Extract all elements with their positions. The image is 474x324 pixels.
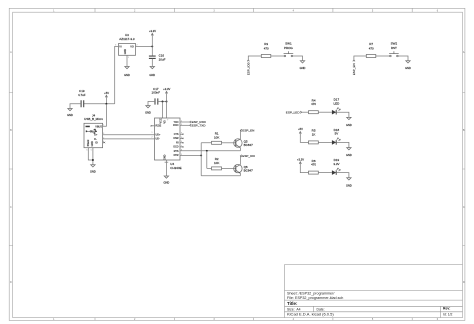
svg-text:VBUS: VBUS (95, 125, 102, 128)
svg-text:470: 470 (311, 102, 316, 106)
global label ESP_LED (286, 110, 302, 114)
wire D18 to ground (336, 142, 349, 147)
resistor R6 (309, 159, 319, 174)
svg-text:GND: GND (149, 73, 155, 77)
power flag +5V (104, 91, 109, 104)
connector J4 USB_B_Micro (84, 113, 104, 151)
wire RTS vertical to R2 (207, 151, 212, 169)
power flag +3.3V (regulator) (149, 29, 156, 47)
global label ESP_EN (switch, vertical) (352, 60, 356, 75)
wire USB D+ to IC (103, 134, 155, 136)
resistor R5 (309, 129, 319, 144)
wire regulator VOUT (136, 45, 153, 47)
svg-text:GND: GND (405, 66, 411, 70)
svg-text:CTS: CTS (174, 133, 179, 136)
global label ESP_EN (240, 128, 254, 132)
svg-text:KiCad E.D.A. kicad (6.0.5): KiCad E.D.A. kicad (6.0.5) (287, 312, 334, 317)
junction DTR (200, 154, 202, 156)
wire Q5 emitter (239, 148, 241, 151)
svg-text:GND: GND (124, 49, 127, 55)
resistor R2 (212, 157, 222, 170)
svg-text:RXD: RXD (173, 123, 179, 127)
wire USB D- to IC (103, 138, 155, 140)
svg-text:5: 5 (160, 120, 161, 122)
svg-text:SW1: SW1 (285, 42, 292, 46)
svg-text:UD+: UD+ (156, 133, 161, 136)
svg-text:10K: 10K (214, 161, 219, 165)
ground (D18) (346, 148, 352, 158)
transistor Q6 (234, 164, 253, 173)
svg-text:4.7uF: 4.7uF (78, 93, 86, 97)
wire C17 left to ground (148, 102, 155, 106)
wire C19 left to ground (70, 104, 81, 109)
svg-text:RTS: RTS (174, 150, 179, 153)
capacitor C17 (152, 87, 161, 105)
svg-text:VI: VI (119, 45, 122, 48)
wire label to R4 (302, 111, 309, 113)
wire V3 drop (166, 102, 168, 119)
wire R2 to Q6 base (222, 167, 236, 169)
svg-text:SW2: SW2 (391, 42, 398, 46)
svg-text:GND: GND (124, 73, 130, 77)
svg-text:10K: 10K (214, 135, 219, 139)
wire R5 to D18 (318, 141, 332, 143)
svg-text:GND: GND (164, 154, 167, 160)
switch SW1 PROG (284, 42, 294, 57)
IC ground wire (165, 160, 167, 176)
svg-text:+3.3V: +3.3V (297, 157, 304, 161)
ground (regulator) (124, 55, 130, 77)
svg-text:R3: R3 (264, 42, 268, 46)
svg-text:ESP_TXD: ESP_TXD (192, 123, 207, 127)
junction usb gnd (92, 159, 94, 161)
svg-text:GND: GND (346, 123, 352, 127)
svg-text:5: 5 (91, 149, 92, 151)
svg-text:BC847: BC847 (244, 143, 254, 147)
wire Q6 collector (239, 156, 241, 165)
wire label to R7 (354, 56, 366, 60)
ground (C19) (67, 109, 73, 117)
ground (D17) (346, 117, 352, 127)
svg-text:D: D (463, 281, 465, 284)
ID pin no-connect (103, 142, 105, 144)
wire TXD (180, 121, 190, 123)
wire USB shield+gnd down (88, 148, 93, 165)
ground (D19) (346, 178, 352, 188)
wire R3 to SW1 (271, 55, 284, 57)
power flag +3.3V (IC) (163, 87, 170, 102)
wire Q5 collector (239, 130, 241, 139)
USB logo inside J4 (86, 129, 97, 133)
IC U4 CH340E (151, 118, 184, 170)
svg-text:R7: R7 (369, 42, 373, 46)
svg-text:470: 470 (311, 163, 316, 167)
svg-text:+3.3V: +3.3V (149, 29, 156, 33)
svg-text:470: 470 (264, 47, 269, 51)
svg-text:GND: GND (91, 141, 94, 147)
global label ESP_TXD (190, 123, 207, 127)
svg-text:AZ1117-3.3: AZ1117-3.3 (119, 37, 135, 41)
svg-text:1: 1 (152, 132, 153, 134)
junction +5V rail (105, 103, 107, 105)
svg-text:+3.3V: +3.3V (163, 87, 170, 91)
svg-text:GND: GND (346, 153, 352, 157)
svg-text:DCD: DCD (173, 146, 178, 149)
svg-text:ESP_IO0: ESP_IO0 (246, 62, 250, 75)
junction vout (151, 45, 153, 47)
svg-text:ESP_EN: ESP_EN (352, 63, 356, 75)
svg-text:1: 1 (128, 57, 129, 59)
wire RXD (180, 124, 190, 126)
svg-text:DTR: DTR (174, 154, 179, 157)
junction RTS-R2 (206, 150, 208, 152)
wire C17 right to 3.3V rail (158, 101, 167, 103)
top/bottom zone ticks (95, 8, 412, 12)
wire R7 to SW2 (376, 55, 390, 57)
svg-text:6: 6 (87, 149, 88, 151)
junction V3 (166, 101, 168, 103)
svg-text:GND: GND (164, 181, 170, 185)
svg-text:File: ESP32_programmer-klad.sc: File: ESP32_programmer-klad.sch (287, 296, 343, 300)
global label ESP_IO0 (transistor) (240, 154, 255, 158)
wire SW1 to ground (293, 56, 303, 61)
svg-text:1K: 1K (312, 132, 316, 136)
resistor R7 (366, 42, 376, 57)
svg-text:2: 2 (152, 137, 153, 139)
power flag +5V (LED row2) (298, 127, 308, 142)
svg-text:100nF: 100nF (152, 91, 161, 95)
svg-text:CH340E: CH340E (170, 166, 181, 170)
svg-text:470: 470 (369, 47, 374, 51)
switch SW2 RST (389, 42, 399, 57)
svg-text:VO: VO (130, 45, 134, 48)
svg-text:DSR: DSR (173, 137, 178, 140)
svg-text:C: C (10, 206, 12, 209)
svg-text:GND: GND (67, 113, 73, 117)
wire VCC drop (162, 102, 164, 119)
wire label to R3 (248, 56, 261, 60)
svg-text:LED: LED (333, 101, 340, 105)
global label ESP_RXD (190, 120, 207, 124)
svg-text:10uF: 10uF (159, 58, 166, 62)
svg-text:GND: GND (346, 183, 352, 187)
svg-text:ID: ID (95, 141, 98, 144)
svg-text:1: 1 (103, 125, 104, 127)
wire DTR (pin6) (180, 154, 201, 156)
wire DTR vertical to R1 and Q6 emitter (201, 143, 240, 176)
wire VBUS drop (103, 104, 107, 127)
LED D17 (332, 98, 340, 115)
wire SW2 to ground (398, 56, 408, 61)
ground (USB) (90, 165, 96, 174)
svg-text:Rev:: Rev: (443, 307, 450, 311)
svg-text:BC847: BC847 (244, 169, 254, 173)
ground (C16) (149, 67, 155, 77)
regulator U3 (115, 33, 137, 59)
svg-text:R232: R232 (156, 125, 162, 128)
svg-text:GND: GND (145, 111, 151, 115)
svg-text:+5V: +5V (104, 91, 109, 95)
wire RTS (pin5) to transistor net B (180, 150, 240, 152)
svg-text:RI: RI (176, 142, 179, 145)
wire R6 to D19 (318, 172, 332, 174)
global label ESP_IO0 (switch, vertical) (246, 60, 250, 75)
svg-text:ESP_EN: ESP_EN (242, 128, 254, 132)
svg-text:3.3V: 3.3V (333, 162, 339, 166)
svg-text:D: D (10, 281, 12, 284)
svg-text:Title:: Title: (287, 301, 298, 306)
svg-text:Id: 1/2: Id: 1/2 (443, 313, 453, 317)
ground (SW1) (300, 61, 306, 70)
svg-text:PROG: PROG (284, 46, 294, 50)
svg-text:USB_B_Micro: USB_B_Micro (84, 117, 103, 121)
svg-text:GND: GND (90, 169, 96, 173)
svg-text:9: 9 (167, 120, 168, 122)
svg-text:GND: GND (300, 66, 306, 70)
svg-text:ESP_LED: ESP_LED (286, 110, 301, 114)
side zone ticks (9, 93, 13, 246)
LED D18 (332, 128, 340, 145)
svg-text:Shield: Shield (87, 139, 90, 146)
svg-text:ESP_IO0: ESP_IO0 (242, 154, 255, 158)
wire regulator VIN to +5V rail (115, 46, 119, 103)
wire R4 to D17 (318, 111, 332, 113)
svg-text:RST: RST (391, 46, 397, 50)
transistor Q5 (234, 139, 253, 148)
wire R1 to Q5 base (222, 142, 236, 144)
LED D19 (332, 158, 340, 175)
NC stubs right group pins 1-4 (180, 134, 183, 147)
wire D19 to ground (336, 173, 349, 178)
wire D17 to ground (336, 112, 349, 117)
wire +5V rail C19 to VIN corner (84, 103, 115, 105)
wire Q6 emitter (239, 173, 241, 175)
R232 no-connect stub (151, 125, 154, 127)
resistor R3 (261, 42, 271, 57)
resistor R1 (212, 132, 222, 145)
junction VCC (162, 101, 164, 103)
capacitor C19 (78, 89, 86, 107)
ground (SW2) (405, 61, 411, 70)
capacitor C16 (149, 46, 166, 66)
power flag +3.3V (LED row3) (297, 157, 309, 172)
resistor R4 (309, 98, 319, 113)
ground (C17) (145, 106, 151, 115)
svg-text:5V: 5V (335, 132, 339, 136)
svg-text:C: C (463, 206, 465, 209)
svg-text:UD-: UD- (156, 138, 160, 141)
ground (IC) (164, 176, 170, 185)
title block (285, 265, 463, 318)
svg-text:+5V: +5V (298, 127, 303, 131)
